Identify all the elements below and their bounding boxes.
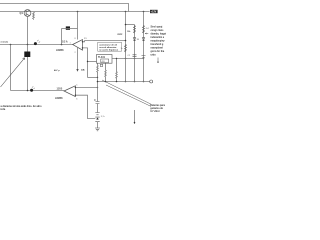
node 97-77 xyxy=(97,77,98,78)
ground bottom xyxy=(95,128,100,131)
diode D4 xyxy=(142,38,145,41)
svg-text:a diarama stroma arab dms. bn: a diarama stroma arab dms. bn akro xyxy=(1,105,43,108)
node U1A top xyxy=(82,41,83,42)
LED D1 xyxy=(34,40,40,45)
svg-text:5: 5 xyxy=(76,84,78,86)
node H3-61 xyxy=(61,44,63,46)
svg-text:2k2: 2k2 xyxy=(146,28,150,30)
node H58-116 xyxy=(116,58,117,59)
node 125-24 xyxy=(125,24,127,26)
wire IC right H58 xyxy=(112,58,144,60)
wire left branch xyxy=(10,45,12,91)
svg-text:examplavel: examplavel xyxy=(151,48,164,50)
svg-text:6: 6 xyxy=(76,99,78,101)
resistor R7 xyxy=(105,63,107,81)
note bottom right xyxy=(150,104,165,113)
annotation arrow down xyxy=(157,58,159,64)
wire +12V rail xyxy=(0,11,150,13)
node 134-122 xyxy=(134,122,136,124)
svg-text:2: 2 xyxy=(75,52,77,54)
ground arrow U1A xyxy=(76,69,78,72)
node 87-61 xyxy=(87,61,88,62)
node H58-125 xyxy=(125,58,126,59)
transistor Q1 xyxy=(24,10,31,17)
LED D2 xyxy=(30,86,35,91)
battery B1 xyxy=(95,113,99,122)
svg-text:4k7 p: 4k7 p xyxy=(54,69,60,72)
resistor R6 xyxy=(97,63,99,77)
wire vertical 143 xyxy=(143,12,145,82)
svg-text:22k: 22k xyxy=(81,69,85,71)
node H58-134 xyxy=(134,58,135,59)
svg-text:Strol speaj: Strol speaj xyxy=(151,26,163,29)
wire battery down xyxy=(97,122,99,128)
wire bottom rail H4 xyxy=(11,90,64,92)
wire H77 xyxy=(88,77,98,79)
wire U1A input top stub xyxy=(83,41,85,42)
resistor R8 xyxy=(116,59,118,82)
note right paragraph xyxy=(151,26,167,57)
svg-text:IRFZ: IRFZ xyxy=(118,34,124,36)
resistor R3 feedback xyxy=(66,26,70,29)
svg-text:izda: izda xyxy=(1,108,6,111)
potentiometer P1 body xyxy=(24,52,30,58)
svg-text:Baterías para: Baterías para xyxy=(150,104,165,107)
capacitor C4 xyxy=(94,99,99,103)
label +12V plate xyxy=(150,10,158,13)
node H81-116 xyxy=(116,81,118,83)
svg-text:8: 8 xyxy=(75,38,77,40)
wire feedback vertical right xyxy=(77,12,79,40)
wire cap to battery xyxy=(97,104,99,113)
svg-text:LM358: LM358 xyxy=(56,49,64,52)
wire mid rail H3 xyxy=(0,44,73,46)
capacitor C3 xyxy=(142,56,146,58)
svg-text:3.7 v/2cc: 3.7 v/2cc xyxy=(150,111,160,113)
svg-text:entrada: entrada xyxy=(1,40,9,43)
svg-text:3,7v: 3,7v xyxy=(101,116,105,118)
svg-text:10k: 10k xyxy=(127,31,131,33)
node U1A bottom xyxy=(82,47,83,48)
wire pot branch lower xyxy=(27,57,29,91)
wire branch H24 xyxy=(126,24,135,26)
node 97-87 xyxy=(97,87,98,88)
wire U1A gnd pin xyxy=(77,48,79,69)
svg-text:urba: urba xyxy=(151,55,157,57)
IC pin square xyxy=(100,64,102,66)
diode D3 xyxy=(133,38,136,41)
svg-text:LM358: LM358 xyxy=(55,97,63,100)
svg-text:1N: 1N xyxy=(137,39,140,41)
resistor R10 xyxy=(134,26,136,34)
node H3-27 xyxy=(27,44,29,46)
op-amp U1B xyxy=(64,86,75,97)
node 143-81 xyxy=(143,81,145,83)
svg-text:diamba, hagut: diamba, hagut xyxy=(151,33,167,36)
svg-text:indaramlin a: indaramlin a xyxy=(151,37,165,39)
node rail-125 xyxy=(125,11,127,13)
svg-text:C2: C2 xyxy=(128,55,131,57)
svg-text:maqulaspiny: maqulaspiny xyxy=(151,41,166,43)
node battery junction xyxy=(97,118,99,120)
capacitor C2 xyxy=(133,55,137,57)
wire U1A input bottom stub xyxy=(83,48,88,78)
node U1B bottom corner xyxy=(75,95,76,96)
wire Q1 down xyxy=(27,16,29,44)
resistor R2 xyxy=(33,12,35,20)
node H4-27 xyxy=(27,90,29,92)
node rail-77 xyxy=(77,11,79,13)
node H58-143 xyxy=(143,58,144,59)
svg-text:transfurdi g: transfurdi g xyxy=(151,43,164,46)
wire stub 134 lower xyxy=(134,110,136,124)
wire top bus xyxy=(0,4,129,12)
svg-text:+12V: +12V xyxy=(151,11,157,14)
annotation line A xyxy=(102,80,151,104)
wire feedback vertical left xyxy=(61,29,63,45)
svg-text:431: 431 xyxy=(102,61,105,63)
IC U2 inner box xyxy=(101,59,109,63)
wire output H81 xyxy=(98,81,150,83)
wire IC left pin H61 xyxy=(88,61,97,63)
resistor R9 on 125 xyxy=(125,45,127,53)
node H3-10 xyxy=(10,44,12,46)
IC U2 box xyxy=(97,55,113,64)
svg-text:se corrie hipoteca: se corrie hipoteca xyxy=(99,48,119,51)
annotation arrow left xyxy=(145,33,148,34)
svg-text:congr clans: congr clans xyxy=(151,30,165,32)
wire feedback horizontal xyxy=(62,28,78,30)
wire 97 down xyxy=(97,78,99,102)
op-amp U1A xyxy=(73,40,83,51)
node 134-81 xyxy=(134,81,136,83)
svg-text:R1: R1 xyxy=(84,38,87,40)
wire U1B top input xyxy=(75,87,97,89)
node 125-81 xyxy=(125,81,127,83)
node H81-97 xyxy=(97,81,99,83)
wire main vertical 125 xyxy=(125,12,127,82)
node H81-105 xyxy=(105,81,107,83)
wire vertical 134 xyxy=(134,25,136,82)
wire pot branch upper xyxy=(27,45,29,52)
svg-text:1/2 B: 1/2 B xyxy=(57,88,63,91)
node 125-40 xyxy=(125,40,127,42)
annotation line B xyxy=(106,85,151,106)
svg-text:1/2 A: 1/2 A xyxy=(62,40,68,43)
terminal output circle xyxy=(150,80,153,83)
node U1B top corner xyxy=(75,87,76,88)
svg-text:gemelos de: gemelos de xyxy=(150,108,163,110)
wire U1B bottom input xyxy=(75,95,95,118)
node rail-143 xyxy=(143,11,145,13)
note bottom left xyxy=(1,105,43,111)
resistor R11 xyxy=(143,26,145,34)
svg-text:Q1: Q1 xyxy=(20,12,24,15)
svg-text:1k: 1k xyxy=(121,48,123,50)
potentiometer P1 wiper arrow xyxy=(1,58,25,87)
callout text box xyxy=(98,42,122,51)
wire center H40 xyxy=(85,40,126,42)
svg-text:gorra for tha: gorra for tha xyxy=(151,50,165,53)
